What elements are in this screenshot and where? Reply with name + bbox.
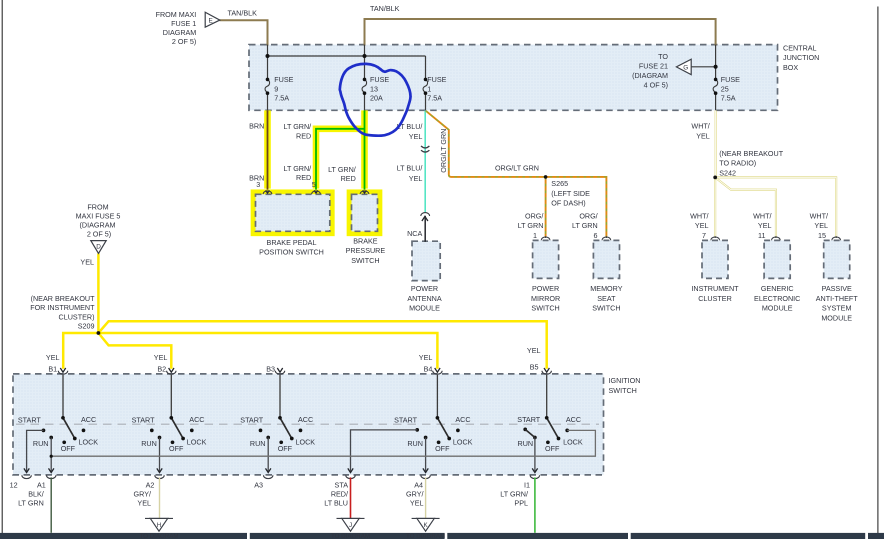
svg-text:(LEFT SIDE: (LEFT SIDE [551,189,590,198]
svg-text:YEL: YEL [80,258,94,267]
svg-text:BLK/: BLK/ [28,489,44,498]
svg-text:RUN: RUN [518,439,534,448]
svg-text:ANTENNA: ANTENNA [407,294,442,303]
svg-text:TO DIAGRAM: TO DIAGRAM [331,533,370,539]
svg-text:GRY/: GRY/ [134,489,151,498]
svg-text:TO DIAGRAM: TO DIAGRAM [406,533,445,539]
svg-text:25: 25 [721,84,729,93]
svg-text:B2: B2 [157,365,166,374]
svg-text:11: 11 [758,231,765,240]
svg-text:YEL: YEL [410,499,424,508]
svg-text:CENTRAL: CENTRAL [783,43,817,52]
svg-text:15: 15 [818,231,826,240]
svg-text:RED: RED [296,131,311,140]
svg-text:7.5A: 7.5A [427,94,442,103]
svg-text:WHT/: WHT/ [691,121,709,130]
svg-text:LT GRN/: LT GRN/ [283,164,311,173]
svg-text:WHT/: WHT/ [753,212,771,221]
svg-text:TO DIAGRAM: TO DIAGRAM [139,533,178,539]
svg-text:S242: S242 [719,168,736,177]
svg-text:TO RADIO): TO RADIO) [719,159,756,168]
svg-text:LOCK: LOCK [453,437,473,446]
svg-text:LOCK: LOCK [79,437,99,446]
svg-text:FROM MAXI: FROM MAXI [156,10,197,19]
svg-text:SWITCH: SWITCH [592,304,620,313]
svg-text:POWER: POWER [532,284,559,293]
svg-text:OFF: OFF [169,444,184,453]
svg-text:PRESSURE: PRESSURE [346,246,386,255]
svg-text:FUSE: FUSE [721,75,740,84]
svg-text:H: H [157,522,161,529]
svg-text:LOCK: LOCK [187,437,207,446]
svg-text:YEL: YEL [154,353,168,362]
svg-text:FUSE: FUSE [370,75,389,84]
svg-text:12: 12 [10,480,18,489]
svg-text:I1: I1 [524,480,530,489]
svg-text:2 OF 5): 2 OF 5) [87,229,111,238]
svg-text:ACC: ACC [81,415,96,424]
svg-text:ACC: ACC [298,415,313,424]
svg-text:YEL: YEL [419,353,433,362]
svg-text:5: 5 [312,180,316,189]
svg-text:LT GRN: LT GRN [572,221,598,230]
svg-text:PPL: PPL [514,499,528,508]
svg-text:B4: B4 [424,365,433,374]
svg-text:START: START [394,415,418,424]
svg-text:13: 13 [370,84,378,93]
svg-text:J: J [349,522,352,529]
svg-text:START: START [517,415,541,424]
svg-text:LT BLU/: LT BLU/ [397,164,423,173]
svg-text:RUN: RUN [407,439,423,448]
svg-text:1: 1 [427,84,431,93]
svg-text:YEL: YEL [409,132,423,141]
svg-text:LT GRN: LT GRN [518,221,544,230]
svg-text:SEAT: SEAT [597,294,616,303]
svg-text:A1: A1 [37,480,46,489]
svg-text:LT GRN/: LT GRN/ [500,489,528,498]
svg-text:YEL: YEL [409,174,423,183]
svg-text:ORG/LT GRN: ORG/LT GRN [495,164,539,173]
svg-text:E: E [208,18,212,25]
svg-text:RUN: RUN [250,439,266,448]
svg-text:BRN: BRN [249,122,264,131]
svg-text:LOCK: LOCK [563,437,583,446]
svg-text:S209: S209 [78,322,95,331]
svg-text:FUSE 1: FUSE 1 [171,19,196,28]
svg-text:B5: B5 [530,363,539,372]
svg-text:FUSE 21: FUSE 21 [639,62,668,71]
svg-text:START: START [18,415,42,424]
svg-text:POSITION SWITCH: POSITION SWITCH [259,248,324,257]
svg-text:OFF: OFF [435,444,450,453]
svg-text:YEL: YEL [696,131,710,140]
svg-text:7.5A: 7.5A [274,94,289,103]
svg-text:RUN: RUN [33,439,49,448]
svg-text:RED: RED [341,174,356,183]
svg-text:WHT/: WHT/ [810,212,828,221]
svg-text:YEL: YEL [695,221,709,230]
svg-text:RED: RED [296,173,311,182]
svg-text:MIRROR: MIRROR [531,294,560,303]
svg-text:ACC: ACC [566,415,581,424]
svg-text:1: 1 [533,231,537,240]
svg-text:STA: STA [335,480,349,489]
svg-text:D: D [96,243,101,250]
svg-text:TAN/BLK: TAN/BLK [370,4,400,13]
svg-text:CLUSTER: CLUSTER [698,294,732,303]
svg-text:SWITCH: SWITCH [351,256,379,265]
svg-text:YEL: YEL [527,346,541,355]
svg-text:6: 6 [594,231,598,240]
svg-text:YEL: YEL [137,499,151,508]
svg-text:SYSTEM: SYSTEM [822,304,852,313]
svg-text:ANTI-THEFT: ANTI-THEFT [816,294,859,303]
svg-text:GRY/: GRY/ [406,489,423,498]
svg-text:LT GRN: LT GRN [18,499,44,508]
svg-text:A2: A2 [146,480,155,489]
svg-text:FUSE: FUSE [427,75,446,84]
svg-text:LOCK: LOCK [296,437,316,446]
svg-text:S265: S265 [551,179,568,188]
svg-text:BRAKE PEDAL: BRAKE PEDAL [267,238,317,247]
svg-text:MODULE: MODULE [821,313,852,322]
svg-text:9: 9 [274,84,278,93]
svg-text:A4: A4 [414,480,423,489]
svg-text:BRAKE: BRAKE [353,236,378,245]
svg-text:OFF: OFF [61,444,76,453]
svg-text:MODULE: MODULE [762,304,793,313]
svg-text:(NEAR BREAKOUT: (NEAR BREAKOUT [719,149,784,158]
svg-text:START: START [240,415,264,424]
svg-text:TO: TO [658,52,668,61]
svg-text:YEL: YEL [814,221,828,230]
svg-text:ACC: ACC [189,415,204,424]
svg-text:B1: B1 [48,365,57,374]
svg-text:OFF: OFF [278,444,293,453]
svg-text:MAXI FUSE 5: MAXI FUSE 5 [76,211,121,220]
svg-text:ORG/: ORG/ [579,212,597,221]
svg-text:JUNCTION: JUNCTION [783,53,819,62]
svg-text:(DIAGRAM: (DIAGRAM [80,220,116,229]
svg-text:DIAGRAM: DIAGRAM [163,28,197,37]
svg-text:YEL: YEL [46,353,60,362]
svg-text:OF DASH): OF DASH) [551,199,585,208]
svg-text:OFF: OFF [545,444,560,453]
svg-text:7: 7 [702,231,706,240]
svg-text:WHT/: WHT/ [690,212,708,221]
svg-text:20A: 20A [370,94,383,103]
svg-text:NCA: NCA [407,229,422,238]
svg-text:BOX: BOX [783,63,798,72]
svg-text:2 OF 5): 2 OF 5) [172,37,196,46]
svg-text:SWITCH: SWITCH [609,386,637,395]
svg-text:LT BLU: LT BLU [324,499,348,508]
svg-text:PASSIVE: PASSIVE [822,284,852,293]
svg-text:ORG/: ORG/ [525,212,543,221]
svg-text:3: 3 [256,180,260,189]
svg-text:CLUSTER): CLUSTER) [59,312,95,321]
svg-text:ELECTRONIC: ELECTRONIC [754,294,800,303]
svg-text:LT GRN/: LT GRN/ [328,165,356,174]
svg-text:(NEAR BREAKOUT: (NEAR BREAKOUT [31,294,96,303]
svg-text:IGNITION: IGNITION [609,376,641,385]
svg-text:7.5A: 7.5A [721,94,736,103]
svg-text:ORG/LT GRN: ORG/LT GRN [439,129,448,173]
svg-text:START: START [132,415,156,424]
svg-text:YEL: YEL [758,221,772,230]
svg-text:RED/: RED/ [331,489,348,498]
svg-text:LT GRN/: LT GRN/ [283,122,311,131]
svg-text:(DIAGRAM: (DIAGRAM [632,71,668,80]
svg-text:SWITCH: SWITCH [531,304,559,313]
svg-text:GENERIC: GENERIC [761,284,794,293]
svg-text:FOR INSTRUMENT: FOR INSTRUMENT [30,303,95,312]
svg-text:FROM: FROM [87,202,108,211]
svg-text:4 OF 5): 4 OF 5) [644,81,668,90]
svg-text:RUN: RUN [141,439,157,448]
svg-text:ACC: ACC [455,415,470,424]
svg-text:G: G [683,64,688,71]
svg-text:TAN/BLK: TAN/BLK [228,8,258,17]
svg-text:B3: B3 [266,365,275,374]
svg-text:FUSE: FUSE [274,75,293,84]
svg-text:A3: A3 [254,480,263,489]
svg-text:MEMORY: MEMORY [590,284,622,293]
svg-text:MODULE: MODULE [409,304,440,313]
svg-text:INSTRUMENT: INSTRUMENT [691,284,739,293]
svg-text:POWER: POWER [411,284,438,293]
